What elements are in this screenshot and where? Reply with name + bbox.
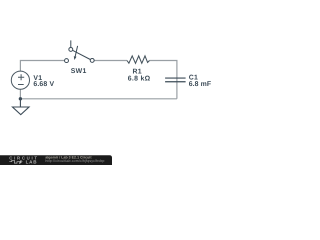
- CircuitLab logo: waveform: [9, 160, 22, 164]
- capacitor C1: [165, 78, 186, 82]
- svg-text:http://circuitlab.com/c/hjfqsy: http://circuitlab.com/c/hjfqsyc/hvbp: [45, 159, 104, 163]
- wire resistor R1 to capacitor C1 top: [150, 61, 177, 99]
- svg-text:SW1: SW1: [71, 68, 87, 75]
- voltage source V1: [11, 71, 29, 89]
- svg-text:6.8 mF: 6.8 mF: [189, 81, 212, 88]
- resistor R1: [127, 56, 150, 63]
- wire top-left: V1 top to switch left terminal: [20, 61, 64, 72]
- wire switch right terminal to resistor R1: [94, 60, 127, 62]
- node A junction dot: [19, 97, 22, 100]
- svg-text:6.8 kΩ: 6.8 kΩ: [128, 76, 151, 83]
- watermark bar: [0, 155, 112, 165]
- ground: [13, 99, 30, 115]
- switch SW1: [65, 40, 95, 62]
- svg-text:LAB: LAB: [26, 159, 38, 164]
- wire bottom: right corner to V1 bottom node: [20, 98, 177, 100]
- svg-text:6.68 V: 6.68 V: [33, 81, 54, 88]
- wire V1 bottom to node A: [19, 89, 21, 99]
